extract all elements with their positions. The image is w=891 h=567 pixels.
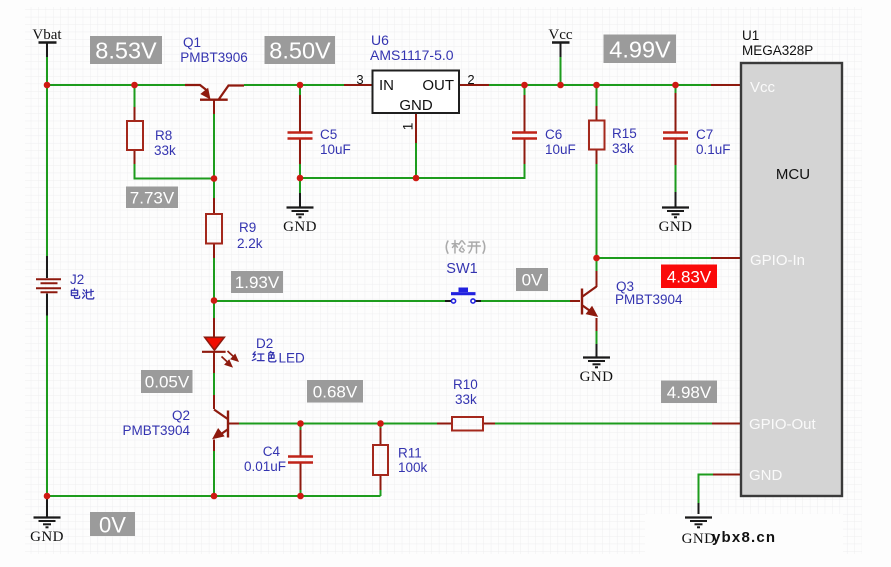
svg-text:2: 2 [467, 72, 474, 87]
svg-text:OUT: OUT [422, 77, 454, 94]
svg-text:1.93V: 1.93V [235, 273, 280, 292]
svg-text:PMBT3906: PMBT3906 [180, 50, 248, 65]
label Q2 PMBT3904 [122, 408, 190, 438]
svg-text:8.53V: 8.53V [95, 38, 157, 64]
svg-text:7.73V: 7.73V [130, 189, 175, 208]
label C5 10uF [320, 127, 351, 157]
voltage label 4.98V [661, 381, 717, 404]
svg-text:GPIO-In: GPIO-In [750, 252, 805, 269]
voltage label 8.50V [265, 36, 336, 64]
wire C7 bottom to GND [675, 138, 677, 207]
wire left rail down (Vbat to battery to bottom) [46, 85, 48, 497]
svg-text:100k: 100k [398, 460, 428, 475]
svg-text:C6: C6 [545, 127, 562, 142]
voltage label 4.83V (red) [661, 265, 717, 289]
svg-text:GND: GND [749, 467, 783, 484]
svg-text:2.2k: 2.2k [237, 236, 263, 251]
wire R11 bottom lead [380, 475, 382, 496]
wire R9 bottom to node 1.93V [213, 244, 215, 302]
power flag Vbat [32, 27, 62, 43]
voltage label 1.93V [231, 271, 283, 293]
svg-text:J2: J2 [70, 272, 84, 287]
label U6 AMS1117-5.0 [370, 32, 454, 63]
label SW1 [446, 261, 477, 277]
wire GND stem below C5 [299, 178, 301, 207]
svg-text:33k: 33k [455, 392, 477, 407]
svg-text:0V: 0V [99, 513, 126, 538]
voltage label 0.05V [141, 370, 193, 393]
transistor Q3 PMBT3904 [582, 287, 597, 317]
svg-text:U1: U1 [742, 28, 759, 43]
wire GPIO-In node to MCU [597, 257, 742, 259]
wire MCU Vcc pin lead [711, 84, 741, 86]
svg-text:10uF: 10uF [320, 142, 351, 157]
label Q3 PMBT3904 [615, 279, 683, 307]
label R11 100k [398, 446, 428, 476]
svg-text:4.83V: 4.83V [667, 268, 712, 287]
wire R15 bottom to GPIO-In node [596, 150, 598, 259]
svg-text:D2: D2 [256, 336, 273, 351]
svg-text:4.98V: 4.98V [667, 383, 712, 402]
resistor R9 [206, 214, 222, 244]
regulator U6 AMS1117-5.0 box [373, 71, 460, 115]
resistor R10 [452, 417, 483, 431]
svg-text:33k: 33k [612, 141, 634, 156]
svg-text:3: 3 [356, 72, 363, 87]
pin number 1 (U6 GND) [400, 122, 416, 130]
watermark ybx8.cn [712, 529, 776, 546]
capacitor C7 [663, 133, 688, 139]
svg-text:AMS1117-5.0: AMS1117-5.0 [370, 47, 454, 63]
label C7 0.1uF [696, 127, 731, 157]
transistor Q2 PMBT3904 [213, 410, 228, 439]
svg-text:0.05V: 0.05V [145, 373, 190, 392]
wire Q2 base to C4 node [229, 423, 301, 425]
wire SW1 right to Q3 base [475, 300, 580, 302]
svg-text:1: 1 [400, 122, 416, 130]
svg-text:GPIO-Out: GPIO-Out [749, 416, 817, 433]
transistor Q1 PMBT3906 [185, 85, 244, 100]
wire Q1 collector to U6 IN [244, 84, 344, 86]
svg-text:GND: GND [682, 531, 716, 547]
svg-text:10uF: 10uF [545, 142, 576, 157]
wire Q1 base lead [213, 100, 215, 179]
wire R8 top lead [134, 85, 136, 121]
resistor R15 [589, 121, 605, 150]
svg-text:ybx8.cn: ybx8.cn [712, 529, 776, 546]
label C6 10uF [545, 127, 576, 157]
voltage label 0V (switch) [516, 268, 548, 291]
wire Vbat stem [46, 43, 48, 58]
svg-text:IN: IN [379, 77, 394, 94]
wire node 7.73V to R9 [213, 179, 215, 215]
svg-text:0.68V: 0.68V [313, 383, 358, 402]
capacitor C5 [288, 133, 313, 139]
label C4 0.01uF [244, 444, 286, 474]
label U1 MEGA328P [742, 28, 813, 58]
battery J2 [36, 256, 61, 316]
svg-text:GND: GND [399, 97, 433, 114]
white patch watermark area [645, 514, 843, 556]
pushbutton SW1 [451, 288, 476, 304]
wire D2 cathode to Q2 collector [213, 352, 215, 409]
wire R8 bottom to Q1 base node [135, 150, 215, 179]
wire Vcc stem [560, 43, 562, 86]
pin number 2 (U6 OUT) [467, 72, 474, 87]
label R10 33k [453, 377, 478, 407]
power flag Vcc [548, 27, 572, 43]
svg-text:Q2: Q2 [172, 408, 190, 423]
svg-text:C4: C4 [263, 444, 281, 459]
svg-text:R9: R9 [239, 220, 256, 235]
wire node 1.93V to SW1 left [214, 300, 452, 302]
svg-text:4.99V: 4.99V [609, 37, 671, 63]
voltage label 0.68V [307, 380, 363, 403]
wire C6 top lead [524, 85, 526, 132]
label R15 33k [612, 126, 637, 156]
voltage label 8.53V [90, 36, 162, 64]
svg-text:C7: C7 [696, 127, 713, 142]
label D2 red LED [252, 336, 305, 366]
svg-text:PMBT3904: PMBT3904 [615, 292, 683, 307]
wire U6 OUT to MCU Vcc [489, 84, 711, 86]
svg-text:Vbat: Vbat [32, 27, 62, 43]
svg-text:33k: 33k [154, 143, 176, 158]
svg-text:GND: GND [283, 219, 317, 235]
wire Q2 emitter to bottom rail [213, 440, 215, 497]
svg-text:R8: R8 [155, 128, 172, 143]
wire R10 right to MCU GPIO-Out [483, 423, 741, 425]
resistor R11 [373, 445, 388, 475]
svg-text:0.1uF: 0.1uF [696, 142, 731, 157]
label R8 33k [154, 128, 176, 158]
svg-text:0.01uF: 0.01uF [244, 459, 286, 474]
svg-text:Q1: Q1 [183, 35, 201, 50]
svg-text:MCU: MCU [776, 166, 810, 183]
svg-text:C5: C5 [320, 127, 337, 142]
voltage label 4.99V [604, 35, 677, 64]
svg-text:PMBT3904: PMBT3904 [122, 423, 190, 438]
svg-text:Vcc: Vcc [750, 79, 776, 96]
svg-text:R11: R11 [398, 446, 422, 461]
ground below Q3 emitter [580, 358, 614, 386]
wire Q3 collector lead [596, 258, 598, 287]
wire Q3 emitter to GND [596, 318, 598, 357]
wire U6 OUT pin lead [459, 84, 489, 86]
svg-text:SW1: SW1 [446, 261, 477, 277]
wire D2 anode lead [213, 301, 215, 337]
wire C7 top lead [675, 85, 677, 132]
capacitor C6 [512, 133, 537, 139]
wire C5 top lead [299, 85, 301, 132]
wire C4 top lead [300, 424, 302, 457]
wire MCU GND pin to ground [699, 475, 742, 518]
capacitor C4 [288, 457, 313, 463]
svg-text:GND: GND [580, 369, 614, 385]
svg-text:U6: U6 [371, 32, 389, 48]
svg-text:0V: 0V [522, 271, 543, 290]
svg-text:8.50V: 8.50V [269, 38, 331, 64]
ground bottom-left [30, 518, 64, 546]
voltage label 0V (bottom) [90, 512, 135, 538]
ground below C7 [659, 208, 693, 236]
label (released) gray [446, 241, 485, 254]
svg-text:R10: R10 [453, 377, 478, 392]
svg-text:R15: R15 [612, 126, 637, 141]
svg-text:GND: GND [30, 529, 64, 545]
LED D2 [202, 337, 238, 367]
wire U6 GND pin lead [415, 113, 417, 178]
label Q1 PMBT3906 [180, 35, 248, 65]
wire U6 IN pin lead [344, 84, 372, 86]
ground below MCU GND pin [682, 518, 716, 548]
wire top rail left (Vbat to Q1 emitter) [47, 57, 186, 85]
wire GND stem bottom-left [46, 496, 48, 517]
voltage label 7.73V [126, 187, 178, 209]
MCU U1 MEGA328P box [741, 63, 842, 496]
svg-text:MEGA328P: MEGA328P [742, 43, 813, 58]
wire R11 top lead [380, 424, 382, 446]
wire C5 bottom to GND rail [299, 138, 301, 178]
svg-text:Vcc: Vcc [548, 27, 572, 43]
svg-text:LED: LED [279, 351, 306, 366]
label J2 battery [70, 272, 94, 299]
wire C6 bottom lead [524, 138, 526, 164]
resistor R8 [127, 121, 143, 150]
wire R15 top lead [596, 85, 598, 121]
label R9 2.2k [237, 220, 263, 251]
wire C4 bottom lead [300, 462, 302, 496]
wire C4 node to R11 node to R10 [301, 423, 453, 425]
wire middle GND rail C5 to C6 [300, 164, 525, 178]
ground below C5 [283, 208, 317, 236]
pin number 3 (U6 IN) [356, 72, 363, 87]
svg-text:GND: GND [659, 219, 693, 235]
wire bottom ground rail [46, 495, 381, 497]
